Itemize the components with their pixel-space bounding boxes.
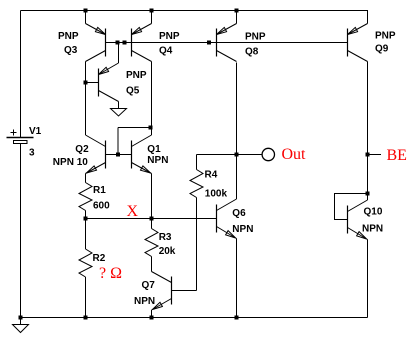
wire left vertical from rail to V1 [20,11,22,138]
wire collector node horizontal [118,127,152,129]
svg-text:R2: R2 [93,253,106,264]
wire R2 bottom to rail [85,277,87,318]
wire Q5 emitter up to base bus [118,43,120,64]
transistor Q9 [348,24,368,62]
svg-text:PNP: PNP [58,31,79,42]
node Q2-Q1 base [116,153,120,157]
svg-text:BE: BE [387,147,407,164]
node rail at V1 [19,316,23,320]
svg-text:NPN: NPN [147,155,168,166]
wire V1 minus to bottom rail [20,144,22,318]
node Out tap [235,153,239,157]
node Q8 base on bus [207,41,211,45]
battery V1 [7,130,34,144]
wire R4 bottom down to Q7 base corner [196,198,198,291]
wire R3 bottom to Q7 collector [151,257,153,272]
transistor Q5 [99,63,119,102]
wire R4 top horizontal to Out line [197,154,237,156]
wire Q5 base to Q3 collector line [86,82,99,84]
svg-text:X: X [127,203,139,220]
node Out wire and terminal [237,154,263,156]
wire Q7 emitter to rail [151,310,153,318]
svg-text:Q5: Q5 [126,86,140,97]
node Q10 loop tap [366,192,370,196]
resistor R1 [79,183,92,211]
ground (Q5 collector) [111,109,127,117]
svg-text:PNP: PNP [126,70,147,81]
svg-text:R4: R4 [205,170,218,181]
wire Q7 base horizontal [172,290,197,292]
node Q4 emitter at rail [150,9,154,13]
svg-text:600: 600 [93,201,110,212]
wire Q10 emitter to rail [367,240,369,318]
svg-text:V1: V1 [29,126,42,137]
wire Q5 collector stub [118,102,120,109]
svg-text:PNP: PNP [375,31,396,42]
transistor Q3 [86,24,106,62]
wire Q9 emitter to rail corner [367,11,369,24]
wire Q9 collector vertical [367,62,369,194]
transistor Q7 [152,272,172,311]
transistor Q10 [348,200,368,240]
wire Q4 emitter to rail [151,11,153,24]
resistor R4 [190,170,203,198]
svg-text:Q1: Q1 [147,144,161,155]
wire Q3 collector down to Q2 collector [85,62,87,136]
svg-text:20k: 20k [159,246,176,257]
wire base bus Q3-Q4-Q8-Q9 [106,42,348,44]
wire base node up to collector node [117,128,119,155]
svg-text:3: 3 [29,148,35,159]
wire node X to R2 [85,219,87,250]
svg-text:Q3: Q3 [64,45,78,56]
transistor Q4 [132,24,152,62]
svg-text:NPN: NPN [232,224,253,235]
wire bottom ground rail [21,317,368,319]
node X left [84,217,88,221]
wire Q10 base loop [335,194,368,220]
node Q3 emitter at rail [84,9,88,13]
node collector join [149,126,153,130]
transistor Q8 [217,24,237,62]
node rail at Q7 [150,316,154,320]
wire Q10 collector stub [367,194,369,201]
transistor Q1 [132,135,152,174]
node rail at Q6 [235,316,239,320]
wire R1 bottom to node X [85,211,87,219]
svg-text:? Ω: ? Ω [99,265,122,282]
wire Q1 emitter down to node X [151,174,153,219]
resistor R2 [79,249,92,277]
wire node X horizontal [86,218,217,220]
svg-text:Q10: Q10 [364,207,383,218]
wire Q4 collector down to node [151,62,153,128]
wire Q6 emitter to rail [236,239,238,318]
svg-text:Out: Out [282,146,307,163]
wire Q2 emitter to R1 [85,174,87,183]
wire Q3 emitter to rail [85,11,87,24]
svg-text:PNP: PNP [245,32,266,43]
wire R4 top lead [196,155,198,170]
node base bus dot a [116,41,120,45]
node X at R3 [150,217,154,221]
resistor R3 [145,229,158,257]
transistor Q2 [86,135,106,174]
svg-text:Q6: Q6 [232,208,246,219]
wire top supply rail [21,10,369,12]
wire base Q2-Q1 [106,154,132,156]
wire Q8 emitter to rail [236,11,238,24]
wire node X to R3 [151,219,153,229]
svg-text:NPN: NPN [134,296,155,307]
svg-text:100k: 100k [205,189,228,200]
wire Q6/Q8 collector vertical [236,63,238,200]
svg-text:R1: R1 [93,185,106,196]
svg-text:Q9: Q9 [375,44,389,55]
svg-text:NPN 10: NPN 10 [53,157,88,168]
svg-text:Q7: Q7 [142,280,156,291]
wire Q1 collector stub to node [151,128,153,136]
svg-text:PNP: PNP [159,31,180,42]
node rail at R2 [84,316,88,320]
svg-text:Q8: Q8 [245,47,259,58]
svg-text:NPN: NPN [362,224,383,235]
node Q5 base tap [84,81,88,85]
ground (bottom left) [13,318,29,333]
svg-text:R3: R3 [159,232,172,243]
svg-text:Q4: Q4 [159,46,173,57]
svg-text:Q2: Q2 [75,144,89,155]
node BE stub [368,154,382,156]
node base bus dot b [123,41,127,45]
transistor Q6 [217,199,237,239]
node Q8 emitter at rail [235,9,239,13]
node BE tap [366,153,370,157]
